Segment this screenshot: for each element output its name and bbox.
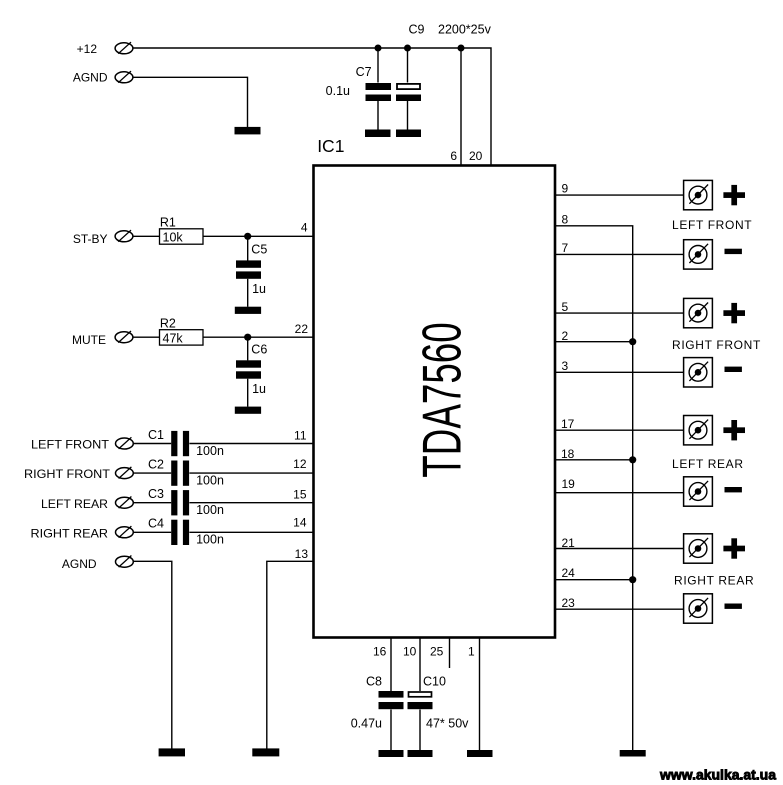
svg-text:www.akulka.at.ua: www.akulka.at.ua <box>659 767 776 783</box>
svg-text:21: 21 <box>562 536 576 550</box>
svg-text:+12: +12 <box>77 42 98 56</box>
svg-text:9: 9 <box>562 182 569 196</box>
svg-text:8: 8 <box>562 212 569 226</box>
svg-text:20: 20 <box>469 149 483 163</box>
svg-text:C8: C8 <box>366 674 382 688</box>
svg-text:19: 19 <box>562 477 576 491</box>
svg-text:AGND: AGND <box>73 71 108 85</box>
svg-text:15: 15 <box>293 488 307 502</box>
svg-text:25: 25 <box>430 645 444 659</box>
svg-text:23: 23 <box>562 596 576 610</box>
svg-text:C7: C7 <box>356 65 372 79</box>
svg-text:10k: 10k <box>163 231 184 245</box>
svg-text:18: 18 <box>561 447 575 461</box>
svg-text:C5: C5 <box>251 243 267 257</box>
svg-text:C1: C1 <box>148 428 164 442</box>
svg-text:3: 3 <box>562 359 569 373</box>
svg-text:C2: C2 <box>148 457 164 471</box>
svg-text:1: 1 <box>468 645 475 659</box>
svg-text:RIGHT REAR: RIGHT REAR <box>31 527 109 541</box>
svg-text:22: 22 <box>295 322 309 336</box>
svg-text:5: 5 <box>562 300 569 314</box>
svg-text:LEFT FRONT: LEFT FRONT <box>31 438 110 452</box>
svg-text:LEFT REAR: LEFT REAR <box>41 497 108 511</box>
svg-text:R1: R1 <box>160 215 176 229</box>
svg-text:14: 14 <box>293 516 307 530</box>
svg-text:IC1: IC1 <box>317 136 344 156</box>
svg-text:24: 24 <box>562 566 576 580</box>
svg-text:ST-BY: ST-BY <box>73 232 108 246</box>
svg-text:10: 10 <box>403 645 417 659</box>
svg-text:MUTE: MUTE <box>72 333 106 347</box>
svg-text:12: 12 <box>293 457 307 471</box>
svg-text:47k: 47k <box>163 332 184 346</box>
svg-text:R2: R2 <box>160 316 176 330</box>
svg-text:47* 50v: 47* 50v <box>426 716 469 730</box>
svg-text:LEFT REAR: LEFT REAR <box>672 457 744 471</box>
svg-text:100n: 100n <box>196 444 224 458</box>
svg-text:C9: C9 <box>409 23 425 37</box>
svg-text:RIGHT FRONT: RIGHT FRONT <box>672 338 761 352</box>
svg-text:1u: 1u <box>252 382 266 396</box>
svg-text:13: 13 <box>295 547 309 561</box>
svg-text:17: 17 <box>561 417 575 431</box>
svg-text:100n: 100n <box>196 533 224 547</box>
svg-text:C10: C10 <box>423 674 446 688</box>
svg-text:RIGHT REAR: RIGHT REAR <box>674 573 754 587</box>
svg-text:16: 16 <box>373 645 387 659</box>
svg-text:4: 4 <box>301 221 308 235</box>
svg-text:2200*25v: 2200*25v <box>438 23 492 37</box>
svg-text:11: 11 <box>294 429 307 443</box>
svg-text:LEFT FRONT: LEFT FRONT <box>672 218 752 232</box>
svg-text:RIGHT FRONT: RIGHT FRONT <box>24 467 111 481</box>
svg-text:AGND: AGND <box>62 557 97 571</box>
svg-text:0.1u: 0.1u <box>326 84 350 98</box>
svg-text:2: 2 <box>562 329 569 343</box>
svg-text:0.47u: 0.47u <box>351 716 382 730</box>
svg-text:1u: 1u <box>252 282 266 296</box>
svg-text:C6: C6 <box>251 342 267 356</box>
svg-text:C4: C4 <box>148 517 164 531</box>
svg-text:6: 6 <box>450 149 457 163</box>
svg-text:7: 7 <box>562 241 569 255</box>
svg-text:C3: C3 <box>148 487 164 501</box>
svg-text:100n: 100n <box>196 503 224 517</box>
svg-text:TDA7560: TDA7560 <box>411 322 472 477</box>
svg-text:100n: 100n <box>196 473 224 487</box>
